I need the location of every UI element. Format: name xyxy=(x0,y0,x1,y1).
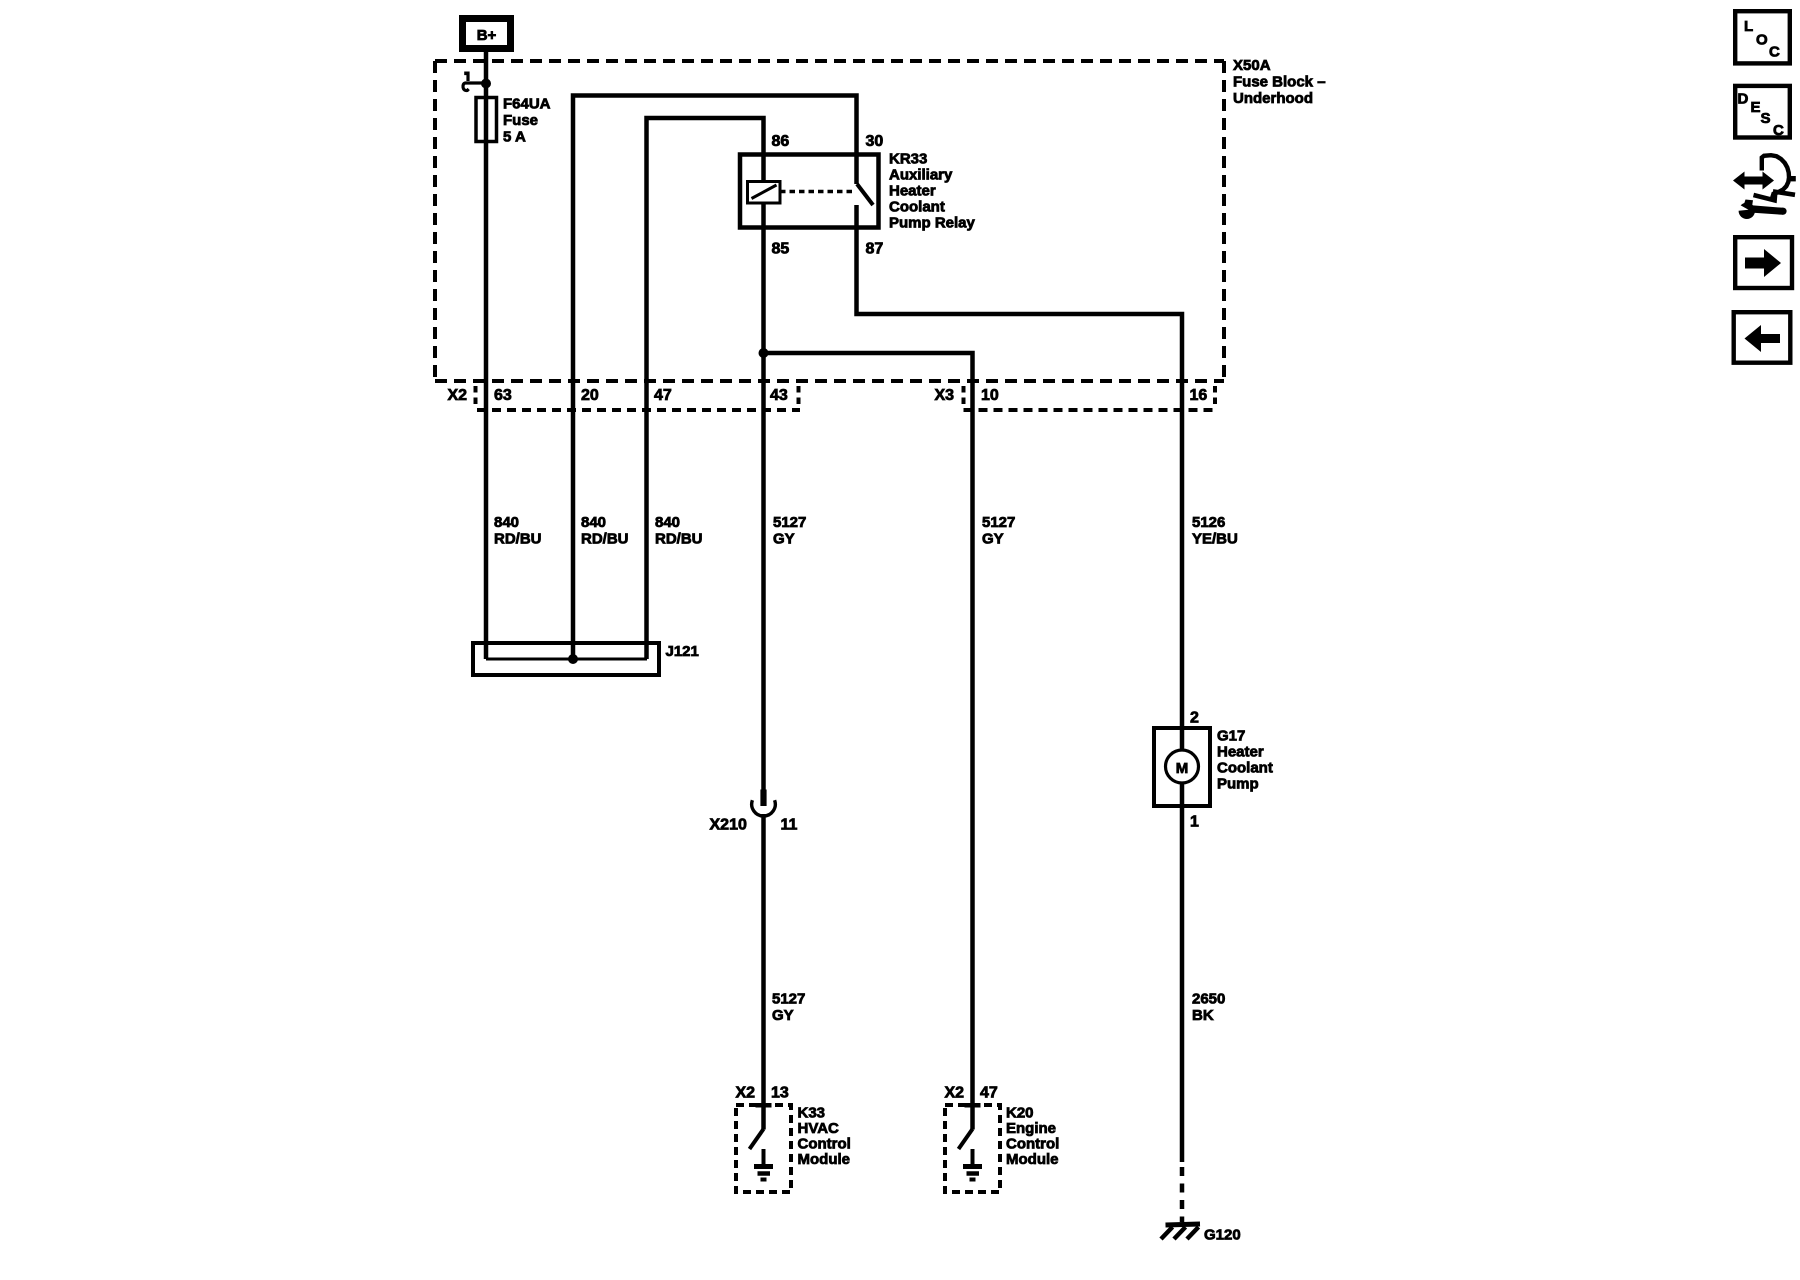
svg-text:Heater: Heater xyxy=(1217,744,1264,761)
svg-text:20: 20 xyxy=(581,387,599,404)
svg-text:Fuse: Fuse xyxy=(503,112,538,129)
svg-text:X3: X3 xyxy=(935,387,955,404)
svg-text:F64UA: F64UA xyxy=(503,96,551,113)
svg-text:Auxiliary: Auxiliary xyxy=(889,167,953,184)
svg-text:E: E xyxy=(1751,99,1761,116)
svg-text:Heater: Heater xyxy=(889,183,936,200)
svg-text:Coolant: Coolant xyxy=(1217,760,1273,777)
svg-text:Fuse Block –: Fuse Block – xyxy=(1233,74,1326,91)
svg-text:5127: 5127 xyxy=(772,991,805,1008)
svg-text:5126: 5126 xyxy=(1192,514,1225,531)
svg-text:D: D xyxy=(1738,91,1749,108)
svg-text:Engine: Engine xyxy=(1006,1120,1056,1137)
svg-text:63: 63 xyxy=(494,387,512,404)
svg-text:16: 16 xyxy=(1190,387,1208,404)
svg-text:HVAC: HVAC xyxy=(798,1120,840,1137)
svg-text:5 A: 5 A xyxy=(503,129,526,146)
svg-text:47: 47 xyxy=(980,1085,998,1102)
svg-text:5127: 5127 xyxy=(982,514,1015,531)
svg-text:C: C xyxy=(1773,122,1784,139)
svg-text:47: 47 xyxy=(654,387,672,404)
svg-text:11: 11 xyxy=(781,817,798,834)
svg-text:85: 85 xyxy=(772,241,790,258)
svg-text:840: 840 xyxy=(494,514,519,531)
svg-text:Module: Module xyxy=(798,1151,851,1168)
svg-text:840: 840 xyxy=(655,514,680,531)
svg-text:RD/BU: RD/BU xyxy=(494,531,542,548)
svg-text:43: 43 xyxy=(770,387,788,404)
svg-text:Underhood: Underhood xyxy=(1233,90,1313,107)
svg-text:Control: Control xyxy=(1006,1136,1059,1153)
svg-text:30: 30 xyxy=(866,133,884,150)
svg-text:Pump: Pump xyxy=(1217,776,1259,793)
svg-text:KR33: KR33 xyxy=(889,151,927,168)
svg-text:J121: J121 xyxy=(666,643,699,660)
svg-text:87: 87 xyxy=(866,241,884,258)
svg-text:BK: BK xyxy=(1192,1007,1214,1024)
svg-text:GY: GY xyxy=(982,531,1004,548)
svg-text:X210: X210 xyxy=(710,817,747,834)
svg-text:2: 2 xyxy=(1190,710,1199,727)
svg-text:B+: B+ xyxy=(477,27,497,44)
svg-text:GY: GY xyxy=(773,531,795,548)
svg-text:X2: X2 xyxy=(448,387,468,404)
svg-text:L: L xyxy=(1744,18,1753,35)
svg-text:2650: 2650 xyxy=(1192,991,1225,1008)
svg-text:Module: Module xyxy=(1006,1151,1059,1168)
svg-text:M: M xyxy=(1176,760,1189,777)
svg-text:O: O xyxy=(1756,32,1768,49)
svg-text:GY: GY xyxy=(772,1007,794,1024)
svg-text:Coolant: Coolant xyxy=(889,199,945,216)
svg-text:X50A: X50A xyxy=(1233,57,1271,74)
svg-text:S: S xyxy=(1761,110,1771,127)
svg-text:RD/BU: RD/BU xyxy=(581,531,629,548)
svg-text:K33: K33 xyxy=(798,1105,826,1122)
svg-text:5127: 5127 xyxy=(773,514,806,531)
svg-text:10: 10 xyxy=(981,387,999,404)
svg-text:YE/BU: YE/BU xyxy=(1192,531,1238,548)
svg-text:86: 86 xyxy=(772,133,790,150)
svg-text:K20: K20 xyxy=(1006,1105,1034,1122)
svg-text:G120: G120 xyxy=(1204,1227,1241,1244)
svg-text:G17: G17 xyxy=(1217,728,1245,745)
svg-text:X2: X2 xyxy=(945,1085,965,1102)
svg-text:13: 13 xyxy=(771,1085,789,1102)
svg-text:1: 1 xyxy=(1190,814,1199,831)
svg-text:X2: X2 xyxy=(736,1085,756,1102)
svg-text:C: C xyxy=(1769,44,1780,61)
svg-text:Pump Relay: Pump Relay xyxy=(889,215,976,232)
svg-text:Control: Control xyxy=(798,1136,851,1153)
svg-text:840: 840 xyxy=(581,514,606,531)
svg-text:RD/BU: RD/BU xyxy=(655,531,703,548)
